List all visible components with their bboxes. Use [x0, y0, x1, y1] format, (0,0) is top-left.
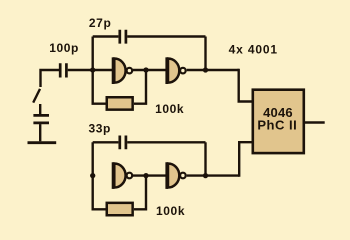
op-amp gate U1C body	[114, 163, 125, 187]
wire: gate 3 output to gate 4 input	[133, 174, 166, 176]
capacitor C1 27p plates	[120, 30, 126, 44]
wire: corner down to 4046 top input	[239, 69, 253, 102]
wire: resistor R2 right lead up to junction	[134, 176, 146, 210]
wire: main input wire right segment to gate 1	[68, 69, 112, 71]
capacitor C2 plates (to ground)	[33, 115, 49, 123]
op-amp gate U1D output bubble	[180, 173, 186, 179]
wire: 33p feedback left vertical to resistor R2	[93, 142, 106, 209]
op-amp gate U1B output bubble	[180, 68, 186, 74]
wire: switch to capacitor	[39, 104, 41, 114]
resistor R2 100k body	[107, 203, 133, 215]
svg-text:100k: 100k	[155, 102, 184, 116]
wire: 33p feedback top wire right part	[127, 141, 205, 143]
node: inter-gate junction bottom	[143, 173, 148, 178]
op-amp gate U1C output bubble	[127, 173, 133, 179]
node: oscillator 2 output junction	[203, 173, 208, 178]
op-amp gate U1C input bar	[112, 162, 115, 189]
svg-text:100p: 100p	[49, 41, 79, 55]
ground symbol	[28, 141, 57, 144]
wire: corner up to 4046 bottom input	[239, 142, 253, 177]
svg-text:33p: 33p	[89, 122, 111, 136]
op-amp gate U1A input bar	[112, 57, 115, 84]
wire: gate 2 output to corner	[187, 69, 239, 71]
switch S1 blade	[33, 89, 40, 103]
wire: capacitor to ground	[39, 124, 41, 141]
wire: feedback left vertical to resistor R1	[93, 37, 106, 104]
svg-text:27p: 27p	[89, 16, 111, 30]
capacitor C 100p plates	[60, 63, 66, 77]
node: oscillator 1 output junction	[203, 67, 208, 72]
wire: output junction up to 33p feedback wire	[204, 142, 206, 175]
wire: gate 4 output to corner	[187, 174, 240, 176]
capacitor C3 33p plates	[120, 136, 126, 150]
node: gate 3 input junction	[90, 173, 95, 178]
wire: gate 1 output to gate 2 input	[133, 69, 166, 71]
op-amp gate U1B body	[168, 59, 179, 83]
op-amp gate U1D body	[168, 163, 179, 187]
wire: resistor R1 right lead up to junction	[134, 70, 146, 104]
wire: main input wire left segment with corner	[41, 70, 60, 87]
op-amp gate U1A (4001 NOR as inverter) body	[114, 59, 125, 83]
op-amp gate U1B input bar	[165, 57, 168, 84]
IC U2 4046 phase comparator box	[253, 90, 304, 153]
node: gate 1 input junction	[90, 67, 95, 72]
wire: output junction up to feedback wire	[204, 37, 206, 71]
resistor R1 100k body	[107, 97, 133, 109]
svg-text:PhC II: PhC II	[257, 117, 297, 132]
wire: 27p feedback top wire right part	[127, 35, 205, 37]
wire: 4046 output	[304, 121, 325, 123]
wire: 33p feedback top wire left part	[93, 141, 119, 143]
wire: 27p feedback top wire left part	[93, 35, 119, 37]
svg-text:4x 4001: 4x 4001	[229, 43, 278, 57]
op-amp gate U1A output bubble	[127, 68, 133, 74]
svg-text:100k: 100k	[156, 204, 185, 218]
op-amp gate U1D input bar	[165, 162, 168, 189]
node: inter-gate junction top	[143, 67, 148, 72]
